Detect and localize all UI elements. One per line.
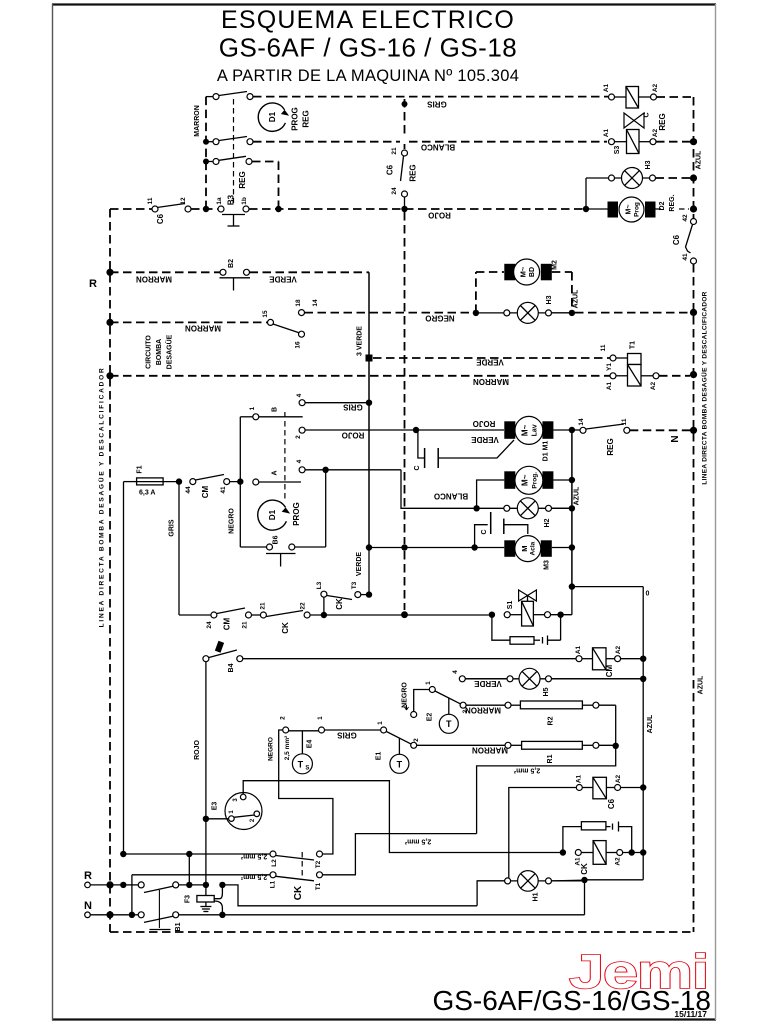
svg-text:21: 21 <box>260 602 267 610</box>
relay CK coil with thermal bypass <box>560 822 644 875</box>
svg-text:A2: A2 <box>615 857 622 866</box>
svg-text:C6: C6 <box>385 164 394 175</box>
node diamond right bus y=312.4 <box>690 309 697 316</box>
node junction (571.9,430) <box>569 427 575 433</box>
label CIRCUITO BOMBA DESAGUE <box>146 334 174 369</box>
wire ROJO vertical x=206.2 <box>194 662 206 885</box>
thermostat E4 with sensor TS <box>267 716 324 774</box>
wire left dashed vertical bus x=110 <box>109 209 111 932</box>
node junction (643.2,658.7) <box>640 656 646 662</box>
svg-text:MARRON: MARRON <box>185 324 221 333</box>
svg-text:2,5 mm²: 2,5 mm² <box>240 853 267 860</box>
svg-text:D1 M1: D1 M1 <box>543 441 550 462</box>
svg-text:D2: D2 <box>659 201 666 210</box>
wire heater return 2,5mm2 <box>477 746 616 834</box>
svg-text:NEGRO: NEGRO <box>402 682 409 708</box>
node junction (369,402.7) <box>366 400 372 406</box>
switch C6 contacts 11-12 on ROJO bus <box>147 197 191 224</box>
node diamond (404.5,614.7) <box>401 611 408 618</box>
wire B4 to CM coil <box>243 658 576 660</box>
node diamond left bus y=914.8 <box>106 911 113 918</box>
node junction (222.4,884.9) <box>219 882 225 888</box>
switch B1 pole N <box>135 890 585 931</box>
pushbutton B2 <box>220 259 251 291</box>
svg-text:ROJO: ROJO <box>473 419 496 428</box>
svg-text:B4: B4 <box>228 663 235 672</box>
selector contact 4 (A) <box>296 459 401 472</box>
node diamond on right bus y=209 <box>690 205 697 212</box>
thermal bypass of S1 <box>492 615 561 645</box>
node diamond on right bus y=141.7 <box>690 138 697 145</box>
switch C6 42-41 on right bus <box>672 214 697 264</box>
svg-text:M~: M~ <box>519 266 528 277</box>
svg-text:A1: A1 <box>603 128 610 137</box>
selector row B <box>240 406 302 419</box>
svg-text:MARRON: MARRON <box>465 706 501 715</box>
svg-text:N: N <box>84 900 92 912</box>
svg-text:M~: M~ <box>626 205 633 215</box>
switch CM 44-41 <box>185 475 230 499</box>
svg-text:F3: F3 <box>185 895 192 903</box>
wire y=547.5 from 3VERDE line to M3 <box>369 547 504 549</box>
svg-text:VERDE: VERDE <box>471 435 499 444</box>
svg-text:E2: E2 <box>427 713 434 722</box>
svg-text:11: 11 <box>600 344 607 351</box>
svg-text:ESQUEMA ELECTRICO: ESQUEMA ELECTRICO <box>221 6 515 34</box>
node junction (205.9,818.8) <box>203 816 209 822</box>
node junction (643.2,678.8) <box>640 676 646 682</box>
wire F1 left lead down x=123.5 <box>123 482 125 854</box>
wire L2 stub x=189.3 <box>188 854 190 885</box>
svg-text:21: 21 <box>242 621 249 629</box>
svg-text:41: 41 <box>682 253 689 261</box>
wire B2 row MARRON dashed <box>110 272 220 283</box>
node diamond on right bus y=178 <box>690 174 697 181</box>
svg-text:11: 11 <box>147 197 154 204</box>
svg-text:NEGRO: NEGRO <box>425 314 454 323</box>
svg-text:CK: CK <box>580 863 589 875</box>
node junction (189.3,884.9) <box>186 882 192 888</box>
svg-text:MARRON: MARRON <box>473 377 509 386</box>
node junction (222.4,914.8) <box>219 912 225 918</box>
node junction (206,141.7) <box>203 139 209 145</box>
svg-text:M: M <box>520 545 529 551</box>
svg-text:AZUL: AZUL <box>647 714 654 733</box>
node square junction (369,358) <box>366 355 373 362</box>
svg-text:S: S <box>305 765 309 771</box>
wire S1 right to AZUL vertical <box>551 587 572 615</box>
svg-text:ROJO: ROJO <box>342 431 365 440</box>
svg-text:T1: T1 <box>630 341 637 349</box>
svg-text:GRIS: GRIS <box>343 403 363 412</box>
node junction (571.9,480) <box>569 477 575 483</box>
svg-text:A PARTIR DE LA MAQUINA Nº 105.: A PARTIR DE LA MAQUINA Nº 105.304 <box>217 67 519 85</box>
svg-text:41: 41 <box>220 486 227 494</box>
svg-text:NEGRO: NEGRO <box>267 737 274 761</box>
wire NEGRO dashed row y=312.6 <box>305 313 473 323</box>
svg-text:ROJO: ROJO <box>194 740 201 760</box>
pushbutton B6 <box>240 470 325 567</box>
wire dashed A2 to right bus corner <box>657 96 694 98</box>
thermostat E2 <box>402 681 470 733</box>
svg-text:GRIS: GRIS <box>169 519 176 536</box>
svg-text:R: R <box>84 870 92 882</box>
svg-text:BD: BD <box>529 267 536 277</box>
svg-text:B1: B1 <box>175 922 182 931</box>
wire 0-line bottom corner to H1 <box>585 879 644 881</box>
relay S3 coil <box>603 128 659 154</box>
svg-text:AZUL: AZUL <box>573 289 580 308</box>
wire dashed bus BLANCO <box>253 142 607 152</box>
svg-text:REG: REG <box>658 113 667 130</box>
svg-text:M~: M~ <box>521 474 530 486</box>
svg-text:N: N <box>670 435 681 442</box>
svg-text:MARRON: MARRON <box>194 105 201 137</box>
svg-text:CM: CM <box>201 485 210 498</box>
svg-text:A1: A1 <box>576 774 583 783</box>
svg-text:15: 15 <box>262 310 269 318</box>
node junction (404.5,547.5) <box>401 544 407 550</box>
svg-text:A2: A2 <box>652 83 659 92</box>
svg-text:4: 4 <box>296 393 303 397</box>
wire E4 contact2 NEGRO to CK T2 <box>279 730 333 854</box>
pushbutton B3 contacts 1a-1b <box>216 194 249 226</box>
relay T1 <box>600 341 659 390</box>
svg-text:LINEA DIRECTA BOMBA DESAGÜE Y: LINEA DIRECTA BOMBA DESAGÜE Y DESCALCIFI… <box>96 367 105 628</box>
svg-text:M3: M3 <box>544 560 551 570</box>
node junction (416,430) <box>413 427 419 433</box>
wire BLANCO path from selector A <box>401 470 474 509</box>
svg-text:3 VERDE: 3 VERDE <box>357 326 364 356</box>
wire NEGRO vertical x=240.3 <box>229 417 241 547</box>
svg-text:B2: B2 <box>228 259 235 268</box>
REG cam switch row 3 <box>206 156 252 164</box>
wire MARRON vertical dashed bus x=206 <box>194 97 206 209</box>
wire GRIS row y=615 with CM and CK switches <box>179 602 489 634</box>
svg-text:NEGRO: NEGRO <box>229 508 236 534</box>
wire B2 to VERDE corner <box>250 272 370 283</box>
contactor CK mains contacts L2/T2 L1/T1 <box>123 834 476 901</box>
svg-text:L2: L2 <box>271 859 278 867</box>
svg-text:LINEA DIRECTA BOMBA DESAGÜE Y: LINEA DIRECTA BOMBA DESAGÜE Y DESCALCIFI… <box>700 291 709 484</box>
programmer dial D1 (lower) <box>258 500 301 530</box>
node diamond right bus y=374.6 <box>690 371 697 378</box>
svg-text:A2: A2 <box>615 645 622 654</box>
node junction (131.9,914.8) <box>129 912 135 918</box>
svg-text:24: 24 <box>391 187 398 195</box>
node junction (123.3,884.9) <box>120 882 126 888</box>
wire N to H1 right <box>584 880 586 915</box>
svg-text:14: 14 <box>578 418 585 426</box>
svg-text:21: 21 <box>391 147 398 155</box>
svg-text:1: 1 <box>377 721 384 725</box>
node junction (571.9,508.3) <box>569 505 575 511</box>
svg-text:E4: E4 <box>307 740 314 749</box>
node diamond left bus y=375.8 <box>106 372 113 379</box>
svg-text:1: 1 <box>425 681 432 685</box>
svg-text:E1: E1 <box>376 752 383 761</box>
node junction (189.3,854) <box>186 851 192 857</box>
node junction (206,209) <box>203 206 209 212</box>
node diamond right bus y=430.3 <box>690 427 697 434</box>
svg-text:AZUL: AZUL <box>574 486 581 505</box>
svg-text:16: 16 <box>295 341 302 349</box>
svg-text:B: B <box>271 407 278 412</box>
svg-text:H3: H3 <box>645 160 652 169</box>
svg-text:C: C <box>644 112 651 117</box>
solenoid valve S1 <box>504 590 550 626</box>
node junction (615.7,745.8) <box>613 743 619 749</box>
svg-text:M2: M2 <box>552 260 559 270</box>
filter F3 with ground <box>185 885 223 915</box>
diode C bowtie of REG relay <box>624 112 667 130</box>
svg-text:CM: CM <box>605 664 614 677</box>
node junction (571.9,586.6) <box>569 583 575 589</box>
svg-text:44: 44 <box>185 486 192 494</box>
svg-text:T1: T1 <box>315 882 322 890</box>
svg-text:2,5 mm²: 2,5 mm² <box>240 873 267 880</box>
motor D2 programmer (M~ Prog REG) <box>586 194 689 222</box>
wire solid vertical 3 VERDE x=369 <box>357 272 370 547</box>
node junction (369,547.5) <box>366 544 372 550</box>
svg-text:M~: M~ <box>521 424 530 436</box>
svg-text:1b: 1b <box>241 197 248 205</box>
node junction (491.9,614.7) <box>489 612 495 618</box>
svg-text:H1: H1 <box>533 892 540 901</box>
svg-text:BLANCO: BLANCO <box>421 143 455 152</box>
svg-text:C: C <box>481 529 488 534</box>
svg-text:6,3 A: 6,3 A <box>139 490 155 497</box>
node junction (571.9,312.9) <box>569 310 575 316</box>
svg-text:C6: C6 <box>156 213 165 224</box>
wire dashed S3 A2 to right bus <box>656 141 690 143</box>
capacitor C of M1 <box>414 430 514 471</box>
wire ROJO dashed bus <box>110 209 583 220</box>
svg-text:VERDE: VERDE <box>476 358 504 367</box>
node junction (240.3,481.6) <box>237 478 243 484</box>
node junction (571.9,547.5) <box>569 544 575 550</box>
heater R2 row <box>465 701 616 746</box>
relay CM coil <box>575 645 643 677</box>
switch REG 14-11 to N <box>572 418 690 456</box>
svg-text:15/11/17: 15/11/17 <box>674 1009 707 1019</box>
svg-text:B3: B3 <box>227 194 236 205</box>
svg-text:22: 22 <box>300 602 307 610</box>
svg-text:BLANCO: BLANCO <box>434 492 468 501</box>
programmer dial D1 (top) <box>258 103 289 131</box>
node junction (560.6,614.7) <box>557 612 563 618</box>
fuse F1 6,3A <box>124 465 180 496</box>
svg-text:REG: REG <box>606 438 615 455</box>
svg-text:CK: CK <box>293 885 304 900</box>
svg-text:PROG: PROG <box>292 502 301 526</box>
node junction (323.2,615) <box>321 612 327 618</box>
svg-text:VERDE: VERDE <box>356 552 363 576</box>
svg-text:24: 24 <box>206 621 213 629</box>
wire dashed T1 A2 to right bus <box>659 375 690 377</box>
wire MARRON row y=375.8 to T1 A1 <box>110 376 610 386</box>
svg-text:GRIS: GRIS <box>427 100 447 109</box>
switch CK L3-T3 <box>316 581 369 615</box>
svg-text:A2: A2 <box>652 128 659 137</box>
svg-text:2,5 mm²: 2,5 mm² <box>404 838 431 845</box>
svg-text:E3: E3 <box>212 802 219 811</box>
svg-text:R1: R1 <box>547 754 554 763</box>
svg-text:Prog.: Prog. <box>532 472 539 489</box>
switch B1 pole R <box>126 882 206 893</box>
wire dashed H3 right to bus <box>656 177 691 179</box>
svg-text:REG.: REG. <box>669 194 676 211</box>
svg-text:T: T <box>397 759 403 769</box>
lamp H3 (REG) <box>586 160 656 188</box>
svg-text:T: T <box>298 759 304 769</box>
svg-text:L1: L1 <box>270 880 277 888</box>
node junction (476.6,508.3) <box>473 505 479 511</box>
svg-text:CK: CK <box>281 622 290 634</box>
selector contact 2 to ROJO wire <box>295 427 504 439</box>
svg-text:1: 1 <box>249 406 256 410</box>
heater R1 row <box>417 741 616 763</box>
svg-text:DESAGÜE: DESAGÜE <box>165 334 174 369</box>
svg-text:A2: A2 <box>650 381 657 390</box>
svg-text:REG: REG <box>408 164 417 181</box>
node diamond left bus y=322.4 <box>106 319 113 326</box>
pressure switch E3 <box>206 793 262 830</box>
svg-text:0: 0 <box>646 591 650 598</box>
motor M2 drain pump (M~ BD) <box>476 259 580 313</box>
svg-text:D1: D1 <box>268 509 277 520</box>
motor M3 rinse aid (M Acla) <box>504 536 572 570</box>
node junction (643.2,852.5) <box>640 849 646 855</box>
svg-text:L3: L3 <box>316 581 323 589</box>
svg-text:S1: S1 <box>507 601 514 610</box>
svg-text:A2: A2 <box>615 774 622 783</box>
wire dashed vertical x=404.5 from ROJO bus down <box>404 212 406 544</box>
wire top dashed bus GRIS <box>253 97 608 109</box>
lamp H1 <box>477 871 584 906</box>
node diamond left bus y=272.3 <box>106 269 113 276</box>
svg-text:18: 18 <box>295 299 302 307</box>
relay C6 coil <box>509 774 643 880</box>
mechanical dashed link selector x=284.9 <box>284 412 286 500</box>
node junction (586,209) <box>583 206 589 212</box>
relay REG coil (top) <box>603 83 659 108</box>
node junction (475.9,312.9) <box>473 310 479 316</box>
Jemi logo <box>569 944 708 998</box>
node junction (205.9,884.9) <box>203 882 209 888</box>
node junction (584.5,880) <box>581 877 587 883</box>
motor programmer (M~ Prog.) <box>477 466 572 508</box>
wire H3 corner down to ROJO bus <box>585 178 587 209</box>
svg-text:Lav: Lav <box>532 424 539 436</box>
svg-text:MARRON: MARRON <box>136 275 172 284</box>
wire bottom dashed border y=932 <box>110 931 694 933</box>
svg-text:R2: R2 <box>548 716 555 725</box>
svg-text:B6: B6 <box>273 535 280 544</box>
svg-text:4: 4 <box>296 459 303 463</box>
svg-text:11: 11 <box>621 418 628 425</box>
mechanical dashed link of B3/REG cams x=233.5 <box>233 99 235 203</box>
svg-text:42: 42 <box>682 214 689 222</box>
svg-text:VERDE: VERDE <box>474 679 502 688</box>
svg-text:PROG: PROG <box>291 107 300 131</box>
svg-text:C6: C6 <box>672 234 681 245</box>
svg-text:4: 4 <box>452 670 459 674</box>
svg-text:CK: CK <box>335 598 344 610</box>
svg-text:H3: H3 <box>546 295 553 304</box>
thermostat E1 <box>325 721 421 773</box>
REG cam switch row 2 (BLANCO bus feed) <box>206 137 253 145</box>
svg-text:F1: F1 <box>137 465 144 473</box>
svg-text:2: 2 <box>295 435 302 439</box>
svg-text:GRIS: GRIS <box>337 731 357 740</box>
svg-text:S3: S3 <box>614 146 621 155</box>
wire dashed from row3 to ROJO bus <box>252 162 279 210</box>
node diamond left bus y=884.9 <box>106 881 113 888</box>
terminal N <box>84 900 129 918</box>
switch B4 (door) <box>203 641 243 673</box>
node junction (404.5,209) <box>401 206 407 212</box>
node junction (123.3,854) <box>120 851 126 857</box>
node junction (179,481.6) <box>176 478 182 484</box>
wire R feed to H1 <box>222 885 477 906</box>
svg-text:CIRCUITO: CIRCUITO <box>146 335 153 369</box>
lamp H3 (drain) <box>476 295 572 323</box>
wire right AZUL dashed bus x=693.5 <box>694 97 703 932</box>
svg-text:C: C <box>414 465 421 470</box>
svg-text:2,5 mm²: 2,5 mm² <box>284 735 291 760</box>
svg-text:A1: A1 <box>606 381 613 390</box>
svg-text:H5: H5 <box>543 687 550 696</box>
wire VERDE segment x=369 down to T3 <box>356 548 369 595</box>
motor M1 wash (M~ Lav) <box>471 416 572 461</box>
svg-text:H2: H2 <box>544 518 551 527</box>
svg-text:D1: D1 <box>268 111 277 122</box>
svg-text:R: R <box>89 278 97 290</box>
PROG REG label <box>291 107 311 131</box>
svg-text:Prog: Prog <box>634 202 641 217</box>
node junction (474.6,548) <box>471 544 477 550</box>
svg-text:GS-6AF / GS-16 / GS-18: GS-6AF / GS-16 / GS-18 <box>219 33 518 63</box>
terminal R <box>84 870 123 888</box>
wire GRIS vertical x=179 <box>169 482 180 615</box>
svg-text:REG: REG <box>238 171 247 188</box>
svg-text:A1: A1 <box>575 645 582 654</box>
svg-text:VERDE: VERDE <box>269 275 297 284</box>
svg-text:ROJO: ROJO <box>428 211 451 220</box>
node junction (643.2,787.5) <box>640 784 646 790</box>
svg-text:14: 14 <box>312 299 319 307</box>
node junction (369,594.6) <box>366 591 372 597</box>
REG cam switch row 1 (top GRIS bus feed) <box>206 92 253 100</box>
svg-text:2: 2 <box>413 738 420 742</box>
svg-text:T: T <box>446 719 452 729</box>
svg-text:T2: T2 <box>315 860 322 868</box>
svg-text:1a: 1a <box>216 197 223 205</box>
svg-text:2,5 mm²: 2,5 mm² <box>513 767 540 774</box>
svg-text:12: 12 <box>180 197 187 205</box>
node junction (206,161.5) <box>203 159 209 165</box>
svg-text:GS-6AF/GS-16/GS-18: GS-6AF/GS-16/GS-18 <box>432 985 711 1016</box>
svg-text:2: 2 <box>280 716 287 720</box>
wire dashed to right bus y=312.6 <box>575 312 690 314</box>
svg-text:BOMBA: BOMBA <box>156 339 163 365</box>
svg-text:Y1: Y1 <box>606 363 613 371</box>
node junction (325.6,469.8) <box>322 467 328 473</box>
lamp H2 <box>477 498 572 528</box>
capacitor C of M3 <box>475 512 528 548</box>
svg-text:Acla: Acla <box>530 541 537 555</box>
